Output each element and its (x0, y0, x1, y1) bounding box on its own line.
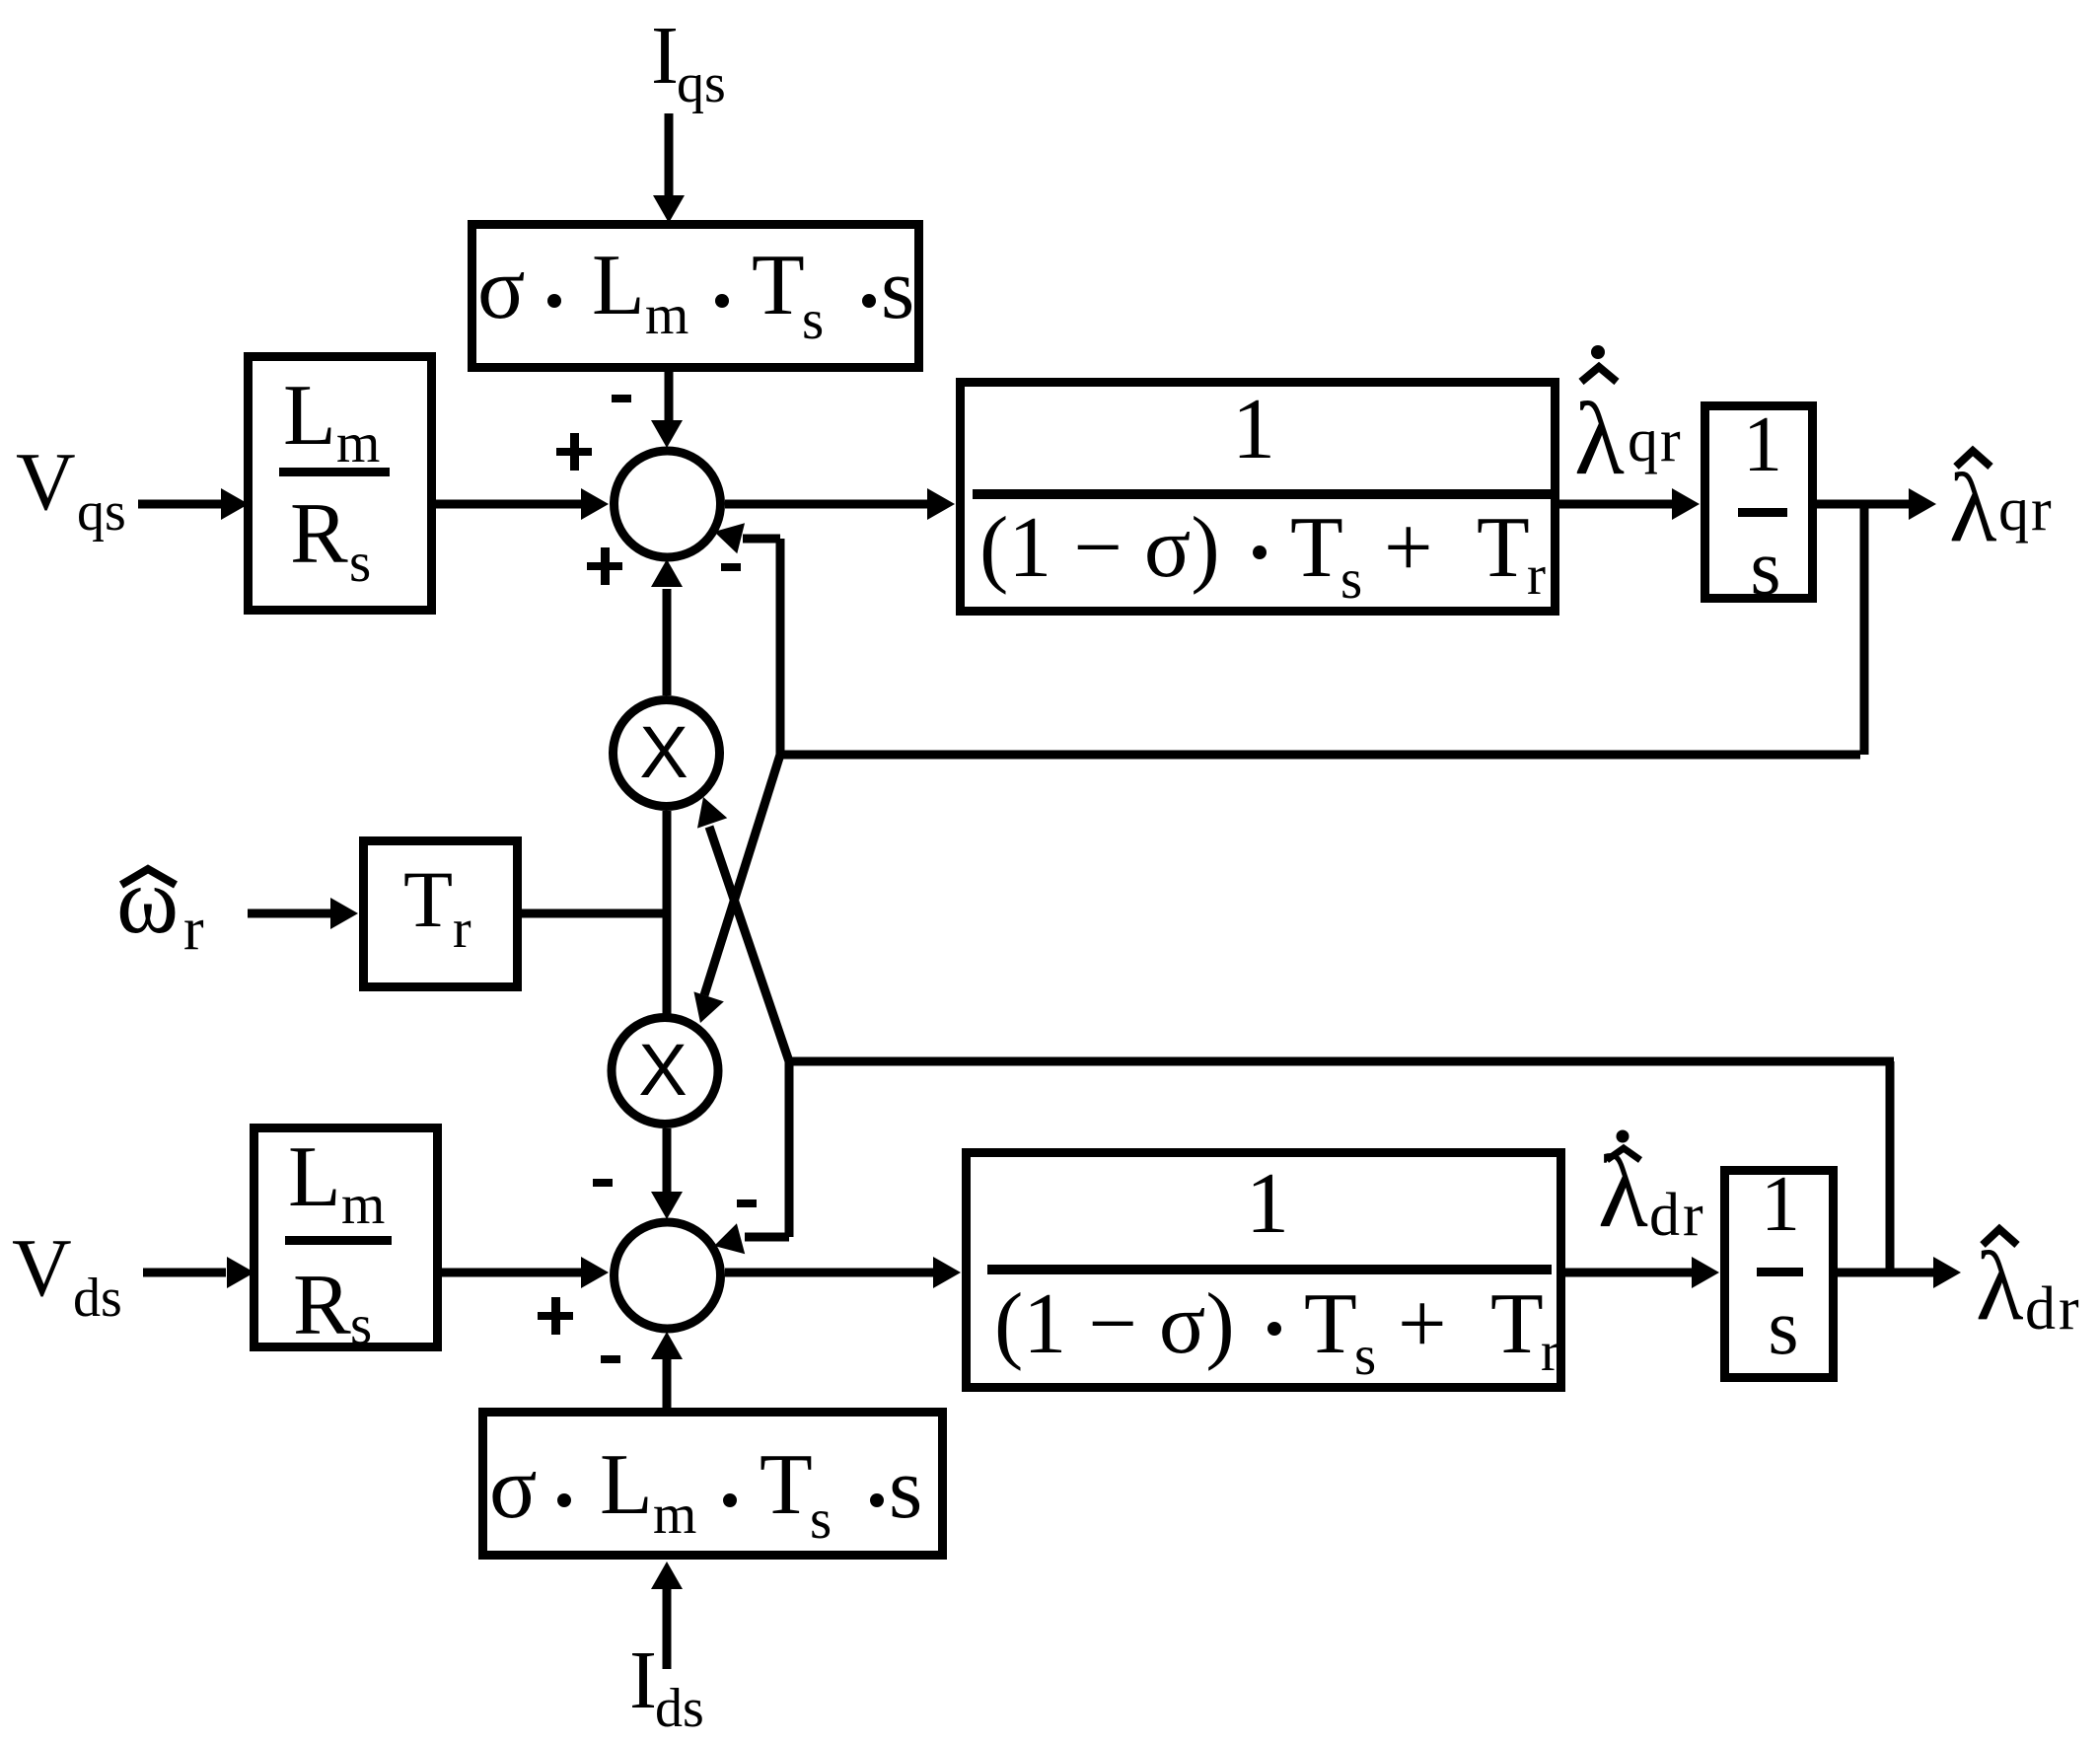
sign minus at S2 top-left (593, 1179, 613, 1187)
arrowhead Iqs into sigma block (653, 195, 685, 223)
wire integrator to output lambda-hat-qr (1817, 500, 1911, 509)
svg-text:s: s (881, 242, 914, 337)
wire Lm/Rs to summing junction S1 (436, 500, 582, 509)
arrowhead into transfer function (top) (927, 488, 955, 520)
svg-text:I: I (651, 10, 679, 102)
wire Iqs vertical (665, 113, 674, 196)
arrowhead Vds into Lm/Rs bottom (227, 1257, 254, 1288)
svg-text:σ: σ (489, 1439, 538, 1537)
svg-text:r: r (1541, 1321, 1559, 1383)
svg-text:dr: dr (2025, 1275, 2082, 1343)
block 1/((1-sigma)Ts+Tr) (top) (961, 383, 1556, 612)
svg-text:(1 − σ): (1 − σ) (979, 500, 1220, 596)
svg-text:λ: λ (1598, 1133, 1648, 1249)
multiplier M1 (top X) (614, 700, 720, 807)
wire dr feedback branch up (1886, 1061, 1895, 1276)
svg-text:T: T (752, 238, 805, 333)
svg-text:m: m (336, 412, 380, 474)
arrowhead into Tr block (330, 898, 358, 929)
svg-text:+: + (1398, 1276, 1447, 1372)
node Vqs input label (16, 436, 126, 543)
fraction bar (bottom transfer function) (987, 1265, 1552, 1274)
arrowhead dr into multiplier M1 (688, 792, 727, 829)
svg-text:m: m (341, 1174, 385, 1236)
block integrator 1/s (bottom) (1725, 1171, 1834, 1378)
wire transfer function to integrator (bottom) (1565, 1269, 1693, 1277)
svg-text:r: r (1527, 545, 1546, 607)
svg-text:ds: ds (73, 1268, 122, 1329)
value label 1/s (top) (1738, 401, 1787, 612)
svg-text:s: s (1750, 525, 1780, 612)
block 1/((1-sigma)Ts+Tr) (bottom) (967, 1153, 1561, 1388)
svg-text:m: m (653, 1484, 696, 1546)
svg-text:X: X (639, 711, 688, 793)
svg-text:X: X (638, 1029, 687, 1111)
svg-text:ds: ds (655, 1678, 704, 1739)
wire dr feedback down to S2 (785, 1057, 794, 1237)
svg-text:T: T (1290, 500, 1343, 596)
svg-text:s: s (1340, 548, 1362, 611)
arrowhead Ids into sigma block bottom (651, 1562, 683, 1589)
sign minus at S1 top (612, 395, 631, 402)
block Lm/Rs (bottom) (254, 1128, 438, 1347)
svg-text:λ: λ (1574, 381, 1625, 496)
svg-text:ω: ω (116, 847, 179, 953)
node Vds input label (12, 1222, 122, 1329)
arrowhead into transfer function (bottom) (933, 1257, 961, 1288)
sign plus at S1 left (556, 433, 592, 471)
svg-text:L: L (288, 1129, 341, 1225)
svg-text:+: + (1384, 500, 1433, 596)
arrowhead sigma block minus into S2 (651, 1332, 683, 1359)
wire dr feedback into S2 stub (745, 1233, 789, 1242)
svg-text:T: T (1304, 1276, 1357, 1372)
wire omega-r to Tr block (248, 909, 331, 918)
wire qr feedback up to S1 (776, 539, 785, 759)
svg-text:m: m (645, 284, 688, 346)
sign plus at S2 left (538, 1297, 573, 1335)
block integrator 1/s (top) (1705, 406, 1813, 599)
svg-text:s: s (349, 532, 371, 594)
svg-text:I: I (629, 1635, 657, 1726)
arrowhead qr into multiplier M2 (686, 991, 724, 1028)
wire M1 to S1 (663, 589, 672, 695)
node lambda-hat-qr output label (1949, 451, 2054, 562)
svg-text:1: 1 (1232, 382, 1275, 477)
sign plus at S1 bottom-left (587, 547, 622, 585)
value label transfer function top: denominator (1 - sigma)*Ts + Tr (979, 500, 1546, 611)
svg-text:V: V (12, 1222, 72, 1314)
node lambda-dot-hat-dr label (1598, 1130, 1706, 1250)
svg-text:T: T (403, 854, 453, 944)
arrowhead qr feedback minus into S1 (710, 516, 745, 553)
svg-text:T: T (1490, 1276, 1544, 1372)
svg-text:R: R (293, 1258, 351, 1353)
fraction bar (top transfer function) (973, 489, 1553, 499)
arrowhead output lambda-hat-qr (1909, 488, 1936, 520)
node lambda-hat-dr output label (1976, 1229, 2082, 1343)
summing junction S2 (bottom) (615, 1222, 721, 1329)
arrowhead M1 plus into S1 (651, 559, 683, 587)
wire dr feedback horizontal (789, 1057, 1894, 1066)
svg-text:T: T (760, 1437, 813, 1533)
svg-text:dr: dr (1649, 1182, 1706, 1249)
wire qr feedback into S1 stub (743, 535, 780, 544)
wire between multipliers M1 and M2 (663, 811, 672, 1017)
arrowhead plus input into S2 (581, 1257, 609, 1288)
svg-text:s: s (889, 1441, 922, 1537)
svg-text:L: L (592, 238, 645, 333)
arrowhead into integrator (top) (1672, 488, 1700, 520)
wire S1 to transfer function block (top) (725, 500, 928, 509)
svg-text:r: r (453, 899, 471, 960)
svg-text:qr: qr (1628, 407, 1683, 474)
node Ids input label (629, 1635, 704, 1739)
wire qr feedback diagonal to multiplier M2 (704, 755, 780, 995)
arrowhead into integrator (bottom) (1692, 1257, 1719, 1288)
value label 1/s (bottom) (1757, 1161, 1803, 1371)
svg-text:L: L (283, 368, 336, 464)
svg-text:V: V (16, 436, 76, 528)
block Lm/Rs (top) (249, 357, 432, 611)
node omega-hat-r input label (116, 847, 204, 963)
wire integrator to output lambda-hat-dr (1838, 1269, 1935, 1277)
node lambda-dot-hat-qr label (1574, 345, 1683, 496)
wire qr feedback branch down (1860, 500, 1869, 755)
value label Tr (403, 854, 471, 960)
block sigma-Lm-Ts-s (top) (472, 225, 919, 368)
arrowhead Vqs into Lm/Rs (221, 488, 249, 520)
block Tr (364, 841, 518, 987)
svg-text:1: 1 (1743, 401, 1782, 488)
svg-text:s: s (1354, 1325, 1376, 1387)
sign minus at S1 lower-right (721, 563, 741, 571)
svg-text:qs: qs (677, 53, 726, 114)
value label transfer function bottom: denominator (1 - sigma)*Ts + Tr (994, 1276, 1559, 1387)
wire M2 to S2 (663, 1128, 672, 1193)
svg-text:R: R (290, 486, 348, 582)
node Iqs input label (651, 10, 726, 114)
svg-text:1: 1 (1246, 1156, 1289, 1252)
value label sigma*Lm*Ts*s (top) (477, 238, 914, 351)
multiplier M2 (bottom X) (612, 1018, 718, 1125)
wire Vds to Lm/Rs block (bottom) (143, 1269, 226, 1277)
svg-text:qs: qs (77, 481, 126, 543)
svg-text:(1 − σ): (1 − σ) (994, 1276, 1235, 1372)
block sigma-Lm-Ts-s (bottom) (483, 1413, 943, 1556)
value label Lm/Rs (top) (279, 368, 390, 594)
wire Vqs to Lm/Rs block (138, 500, 222, 509)
value label sigma*Lm*Ts*s (bottom) (489, 1437, 922, 1551)
svg-text:L: L (600, 1437, 653, 1533)
svg-text:s: s (350, 1294, 372, 1356)
wire dr feedback diagonal to multiplier M1 (709, 827, 789, 1061)
svg-text:r: r (183, 896, 204, 963)
svg-text:λ: λ (1976, 1231, 2024, 1341)
summing junction S1 (top) (615, 451, 721, 557)
svg-text:T: T (1477, 500, 1530, 596)
svg-text:s: s (810, 1489, 832, 1551)
wire transfer function to integrator (top) (1559, 500, 1673, 509)
svg-text:1: 1 (1761, 1161, 1800, 1248)
wire sigma block to S1 (665, 372, 674, 421)
wire Tr output to multiplier column (522, 909, 667, 918)
wire Lm/Rs to summing junction S2 (442, 1269, 582, 1277)
svg-text:λ: λ (1949, 453, 1997, 562)
arrowhead minus input into S1 from sigma block (651, 420, 683, 448)
arrowhead plus input into S1 (581, 488, 609, 520)
wire qr feedback horizontal (780, 751, 1860, 760)
svg-text:σ: σ (477, 240, 526, 337)
svg-text:qr: qr (1998, 476, 2054, 544)
arrowhead dr feedback minus into S2 (710, 1223, 745, 1261)
arrowhead M2 minus into S2 (651, 1192, 683, 1219)
svg-text:s: s (802, 289, 824, 351)
sign minus at S2 bottom-left (601, 1355, 620, 1363)
svg-text:s: s (1768, 1284, 1798, 1371)
wire Ids vertical (663, 1589, 672, 1669)
wire sigma block bottom to S2 (663, 1357, 672, 1408)
wire S2 to transfer function block (bottom) (725, 1269, 934, 1277)
sign minus at S2 upper-right (737, 1199, 757, 1207)
arrowhead output lambda-hat-dr (1933, 1257, 1961, 1288)
value label Lm/Rs (bottom) (285, 1129, 392, 1356)
